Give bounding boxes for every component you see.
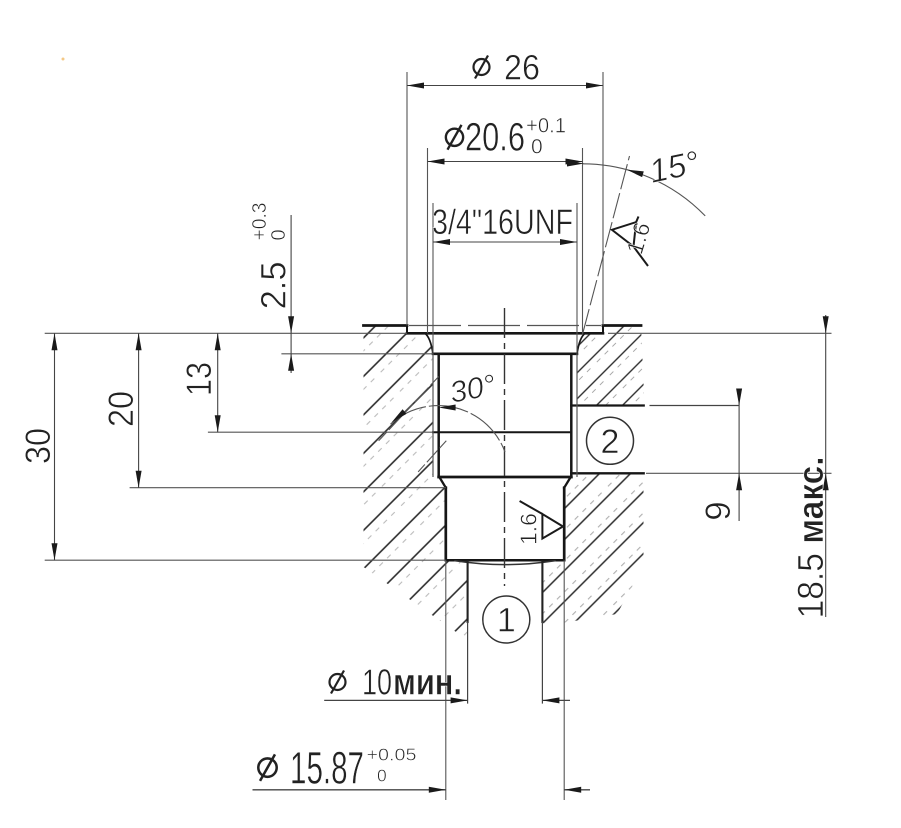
dimension 15 deg arc [567,143,705,216]
channel bottom extension [646,472,832,474]
roughness symbol on 15 deg face [612,217,648,267]
top surface left segment [364,324,408,327]
part outlines [364,326,644,704]
dimension dia 15.87 +0.05/0 [253,743,591,794]
dia15.87 extension right [563,560,565,800]
dia26 extension left [406,72,408,326]
svg-text:0: 0 [268,229,290,240]
drilled hole wall right [541,562,543,623]
channel top extension [650,405,740,407]
svg-text:1: 1 [497,602,516,640]
full thread start extension left [281,353,433,355]
dimension dia 10 min [324,661,570,703]
lower bore wall right [563,488,566,561]
cross channel top edge [571,404,643,406]
thread major wall left (thin) [432,354,434,477]
spotface wall left [406,326,408,334]
sealing face extension line right [608,332,832,334]
dimension 20 [102,333,142,487]
svg-text:1.6: 1.6 [516,513,542,545]
svg-text:+0.05: +0.05 [367,744,417,764]
centerline [504,308,506,586]
svg-text:2: 2 [601,423,620,461]
20 depth extension line [130,487,446,489]
svg-text:18.5 макс.: 18.5 макс. [790,456,831,618]
dia26 extension right [602,72,604,326]
cross channel bottom edge [571,472,643,474]
svg-text:мин.: мин. [393,661,462,702]
thread minor wall left [437,354,440,477]
chamfer left [440,479,446,488]
15 deg slant line [583,156,630,334]
thread extension right [576,203,578,354]
dimension dia 20.6 +0.1/0 [428,114,583,164]
thread runout curve right [577,333,585,354]
port circle 1 [483,596,530,643]
dimension 2.5 +0.3/0 [249,203,294,374]
svg-text:26: 26 [504,48,540,87]
chamfer right [564,479,570,488]
30 depth extension line [45,559,446,561]
13 depth extension line [208,431,433,433]
svg-text:10: 10 [362,661,392,702]
svg-text:30: 30 [19,428,58,464]
svg-text:9: 9 [699,501,738,520]
dimension 30 [19,333,58,560]
svg-text:2.5: 2.5 [255,261,294,309]
top surface right segment [603,324,641,327]
svg-text:13: 13 [180,362,219,396]
spotface far-side edge (across recess) [409,325,601,327]
dimension dia 26 [407,48,603,88]
sealing face extension line left [45,332,407,334]
dia20.6 extension left [427,148,429,333]
full thread start line [433,352,577,355]
dimension 9 [699,389,742,522]
svg-text:15.87: 15.87 [290,743,364,794]
hatch section: block material right lower region [544,473,644,626]
svg-text:0: 0 [377,765,387,785]
stray mark [62,58,65,61]
thread end line across bore (13 depth) [433,431,571,433]
lower bore wall left [444,488,447,561]
svg-text:0: 0 [531,136,543,159]
thread extension left [432,203,434,354]
lower bore bottom [446,559,564,562]
30 deg slant line lower segment [418,441,446,472]
svg-text:+0.1: +0.1 [526,114,566,137]
thread minor wall right [570,354,573,477]
dia20.6 extension right [582,148,584,333]
thread bottom line [439,476,572,479]
30 deg slant line [378,377,439,442]
svg-text:3/4"16UNF: 3/4"16UNF [432,203,573,242]
thread runout curve left [425,333,433,354]
thread major wall right (thin) [576,354,578,477]
svg-text:20: 20 [102,391,141,427]
spotface wall right [602,326,604,334]
hatch section: block material right upper region [577,326,645,406]
dimension 30 deg arc [390,369,505,452]
dia15.87 extension left [445,560,447,800]
roughness symbol in lower bore [520,501,563,539]
dimension 18.5 max [790,315,831,618]
hatch section: block material left region [364,326,468,641]
svg-text:20.6: 20.6 [465,115,525,159]
port circle 2 [587,417,634,464]
dimension 3/4"16UNF [432,203,577,245]
spotface floor [407,332,603,335]
extension lines [45,72,832,800]
drilled hole wall left [467,562,469,623]
dimension 13 [180,333,221,432]
bore bottom far-side arc [455,561,555,565]
